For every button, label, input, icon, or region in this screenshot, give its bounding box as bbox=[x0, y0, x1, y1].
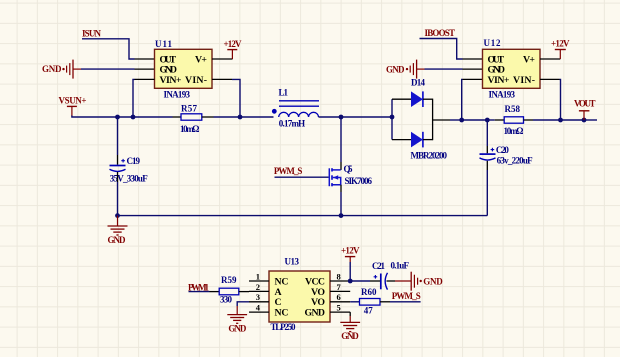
junction VIN- / rail bbox=[238, 115, 243, 120]
svg-text:VIN+: VIN+ bbox=[488, 75, 510, 86]
wire D14 out to rail right bbox=[450, 119, 462, 121]
svg-text:2: 2 bbox=[256, 282, 260, 292]
svg-text:C: C bbox=[275, 297, 282, 308]
svg-text:VO: VO bbox=[311, 287, 325, 298]
svg-text:NC: NC bbox=[275, 276, 289, 287]
svg-text:GND: GND bbox=[386, 64, 405, 74]
svg-text:R60: R60 bbox=[361, 287, 377, 297]
inductor L1 bbox=[272, 87, 319, 128]
pin VIN- U12 bbox=[540, 78, 560, 80]
pin VIN- U11 bbox=[212, 78, 232, 80]
IC U11 INA193 body bbox=[155, 39, 213, 99]
pin 4 U13 bbox=[249, 303, 269, 313]
svg-text:10mΩ: 10mΩ bbox=[180, 124, 200, 134]
svg-text:63v_220uF: 63v_220uF bbox=[497, 155, 533, 165]
power port GND (left of U12) bbox=[386, 60, 425, 79]
wire R59 to pin 2 bbox=[239, 291, 249, 293]
svg-text:35V_330uF: 35V_330uF bbox=[110, 174, 149, 184]
net label IBOOST bbox=[425, 28, 456, 38]
resistor R57 bbox=[173, 103, 214, 133]
wire GND to U11 GND pin bbox=[81, 68, 135, 70]
power port +12V (U11) bbox=[224, 39, 243, 59]
svg-text:VIN-: VIN- bbox=[513, 75, 535, 86]
power port GND (left of U11) bbox=[42, 60, 81, 79]
wire pin 5 down bbox=[349, 312, 351, 316]
svg-text:+12V: +12V bbox=[224, 39, 243, 49]
wire VIN- down to rail bbox=[232, 79, 240, 117]
power port VSUN+ bbox=[59, 96, 87, 117]
resistor R59 bbox=[219, 275, 239, 304]
wire PWM_S to gate bbox=[275, 176, 329, 178]
svg-text:GND: GND bbox=[228, 324, 247, 334]
wire Q5 source to ground rail bbox=[340, 192, 342, 216]
svg-text:+12V: +12V bbox=[341, 245, 360, 255]
svg-text:L1: L1 bbox=[279, 87, 289, 97]
svg-text:C19: C19 bbox=[127, 156, 141, 166]
svg-text:U13: U13 bbox=[285, 256, 300, 266]
wire VIN- down to rail bbox=[560, 79, 561, 120]
svg-text:47: 47 bbox=[364, 306, 374, 316]
pin V+ U12 bbox=[540, 58, 560, 60]
svg-text:GND: GND bbox=[423, 276, 443, 286]
svg-text:A: A bbox=[275, 287, 282, 298]
svg-text:1: 1 bbox=[256, 271, 260, 281]
capacitor C20 bbox=[480, 120, 534, 216]
svg-text:C21: C21 bbox=[372, 261, 386, 271]
svg-text:VSUN+: VSUN+ bbox=[59, 96, 87, 106]
svg-text:ISUN: ISUN bbox=[82, 28, 102, 38]
svg-text:MBR20200: MBR20200 bbox=[411, 150, 448, 160]
junction C19 / rail bbox=[115, 115, 120, 120]
junction pin 8 / +12V / C21 bbox=[348, 279, 353, 284]
wire rail to C20 bbox=[462, 119, 488, 121]
svg-text:R58: R58 bbox=[505, 104, 521, 114]
ground rail bottom bbox=[118, 215, 488, 217]
svg-text:GND: GND bbox=[108, 235, 127, 245]
svg-text:VIN+: VIN+ bbox=[160, 75, 182, 86]
svg-text:330: 330 bbox=[220, 294, 233, 304]
wire pin 3 to ground bbox=[237, 302, 249, 306]
pin VIN+ U12 bbox=[463, 78, 483, 80]
svg-text:PWM_S: PWM_S bbox=[392, 291, 421, 301]
net label ISUN bbox=[82, 28, 102, 38]
svg-text:NC: NC bbox=[275, 308, 289, 319]
net label PWM1 bbox=[188, 282, 210, 292]
pin V+ U11 bbox=[212, 58, 233, 60]
junction Q5 source / ground rail bbox=[339, 213, 344, 218]
pin 5 U13 bbox=[330, 303, 350, 313]
wire PWM1 to R59 bbox=[189, 291, 220, 293]
svg-text:V+: V+ bbox=[195, 54, 207, 65]
IC U12 INA193 body bbox=[483, 38, 541, 100]
junction rail / D14 left bbox=[390, 115, 395, 120]
junction C20 / rail bbox=[485, 118, 490, 123]
svg-text:6: 6 bbox=[337, 292, 341, 302]
net label PWM_S (output) bbox=[392, 291, 421, 301]
pin OUT U11 bbox=[135, 58, 155, 60]
wire U12 VIN+ riser bbox=[461, 79, 464, 120]
power port VOUT bbox=[574, 99, 596, 120]
svg-text:D14: D14 bbox=[411, 77, 426, 87]
wire GND to U12 GND pin bbox=[425, 68, 463, 70]
svg-text:Q5: Q5 bbox=[344, 164, 354, 174]
svg-text:VCC: VCC bbox=[305, 276, 325, 287]
svg-text:VO: VO bbox=[311, 297, 325, 308]
power port GND (right of C21) bbox=[395, 272, 443, 291]
wire ISUN to U11 OUT bbox=[82, 39, 135, 59]
svg-text:IBOOST: IBOOST bbox=[425, 28, 456, 38]
svg-text:U12: U12 bbox=[484, 38, 502, 48]
svg-text:VOUT: VOUT bbox=[574, 99, 596, 109]
IC U13 TLP250 body bbox=[269, 256, 330, 332]
ground symbol GND (U13 pin 3) bbox=[227, 306, 247, 334]
capacitor C19 bbox=[110, 117, 149, 216]
pin 8 U13 bbox=[330, 271, 350, 281]
junction VIN+ / rail bbox=[131, 115, 136, 120]
pin 3 U13 bbox=[249, 292, 269, 302]
pin GND U12 bbox=[463, 68, 483, 70]
svg-text:VIN-: VIN- bbox=[185, 75, 207, 86]
svg-text:0.1uF: 0.1uF bbox=[391, 260, 410, 270]
wire VIN+ down to rail bbox=[133, 79, 135, 117]
svg-text:U11: U11 bbox=[155, 39, 173, 49]
pin 2 U13 bbox=[249, 282, 269, 292]
svg-text:+12V: +12V bbox=[551, 38, 570, 48]
pin VIN+ U11 bbox=[135, 78, 155, 80]
power port +12V (U13) bbox=[341, 245, 360, 262]
junction U12 VIN- riser / rail bbox=[558, 118, 563, 123]
pin 7 U13 bbox=[330, 282, 350, 292]
resistor R58 bbox=[495, 104, 533, 136]
svg-text:TLP250: TLP250 bbox=[271, 322, 297, 332]
junction Q5 drain riser / rail bbox=[339, 115, 344, 120]
wire +12V down to pin 8 bbox=[349, 262, 351, 281]
svg-text:GND: GND bbox=[305, 308, 326, 319]
transistor Q5 SIK7006 bbox=[329, 162, 372, 192]
capacitor C21 bbox=[370, 260, 410, 289]
wire rail end bbox=[584, 119, 597, 121]
svg-text:0.17mH: 0.17mH bbox=[279, 119, 306, 129]
svg-text:GND: GND bbox=[42, 64, 62, 74]
pin OUT U12 bbox=[463, 58, 483, 60]
svg-text:PWM_S: PWM_S bbox=[274, 166, 303, 176]
wire IBOOST to U12 OUT bbox=[420, 39, 463, 60]
pin GND U11 bbox=[135, 68, 155, 70]
svg-text:R57: R57 bbox=[181, 103, 198, 113]
svg-text:SIK7006: SIK7006 bbox=[345, 176, 373, 186]
wire rail to VOUT bbox=[561, 119, 585, 121]
wire R58 to VIN- riser bbox=[533, 119, 561, 121]
pin 6 U13 bbox=[330, 292, 350, 302]
svg-text:V+: V+ bbox=[523, 54, 535, 65]
wire R57 to L1 bbox=[214, 116, 274, 118]
svg-text:5: 5 bbox=[337, 303, 341, 313]
ground symbol GND (under C19) bbox=[108, 216, 128, 246]
svg-text:10mΩ: 10mΩ bbox=[504, 126, 524, 136]
svg-text:INA193: INA193 bbox=[164, 89, 191, 99]
wire pin 8 to C21 bbox=[350, 280, 370, 282]
wire L1 to D14 bbox=[319, 116, 393, 118]
wire C20 to R58 bbox=[487, 119, 494, 121]
svg-text:GND: GND bbox=[341, 331, 359, 341]
junction C19 / ground rail bbox=[115, 213, 120, 218]
svg-text:C20: C20 bbox=[496, 145, 510, 155]
wire drain riser bbox=[340, 117, 342, 162]
svg-text:3: 3 bbox=[256, 292, 260, 302]
power port +12V (U12) bbox=[551, 38, 570, 59]
svg-text:8: 8 bbox=[337, 271, 341, 281]
wire pin 6 to R60 bbox=[350, 301, 359, 303]
pin 1 U13 bbox=[249, 271, 269, 281]
resistor R60 bbox=[360, 287, 391, 316]
wire VSUN+ rail to R57 bbox=[72, 116, 173, 118]
junction VOUT / rail bbox=[582, 118, 587, 123]
diode D14 MBR20200 (dual) bbox=[392, 77, 450, 160]
svg-text:R59: R59 bbox=[221, 275, 237, 285]
ground symbol GND (U13 pin 5) bbox=[340, 316, 360, 341]
wire R60 to PWM_S bbox=[390, 301, 421, 303]
svg-text:INA193: INA193 bbox=[489, 90, 516, 100]
junction U12 VIN+ riser / rail bbox=[459, 118, 464, 123]
net label PWM_S (gate) bbox=[274, 166, 303, 176]
